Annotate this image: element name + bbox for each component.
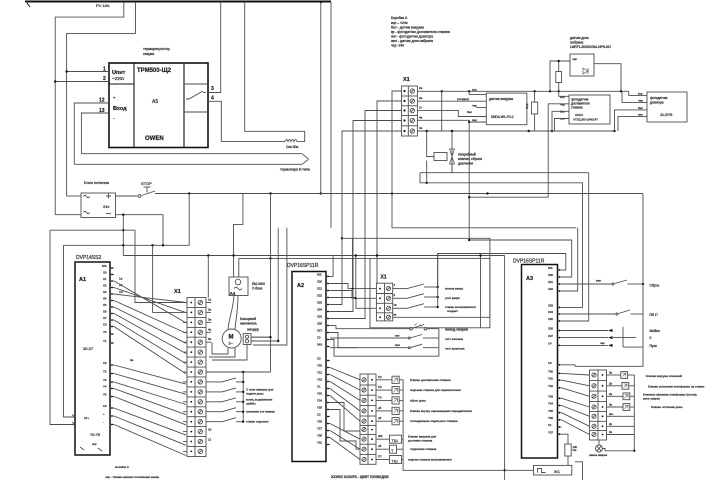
valve solenoid bbox=[376, 420, 392, 422]
switch учет вверх bbox=[393, 297, 407, 299]
svg-text:C2: C2 bbox=[317, 413, 321, 417]
wire vert x480 bbox=[480, 256, 482, 328]
svg-text:4: 4 bbox=[211, 96, 214, 102]
svg-text:exp: exp bbox=[92, 442, 97, 446]
svg-text:термопара К-типа: термопара К-типа bbox=[280, 168, 310, 172]
svg-text:Блок питания: Блок питания bbox=[84, 180, 109, 185]
svg-text:13: 13 bbox=[99, 108, 105, 114]
lamp HL1 bbox=[596, 445, 603, 452]
svg-text:ПЛ П: ПЛ П bbox=[650, 313, 659, 317]
svg-text:3в: 3в bbox=[208, 317, 212, 321]
wire t1 left to 24v drop bbox=[392, 91, 402, 194]
generator Ж1 bbox=[534, 465, 572, 475]
svg-text:чер - Схема нижнего положения: чер - Схема нижнего положения камер bbox=[105, 475, 160, 479]
wire A2 out bbox=[330, 368, 360, 380]
svg-text:A3: A3 bbox=[526, 276, 533, 282]
wire VR direct bbox=[607, 415, 635, 417]
pin 12 wire to thermocouple bbox=[74, 103, 109, 164]
wire A3 to VR bbox=[562, 380, 590, 386]
svg-text:лампа аварии: лампа аварии bbox=[589, 453, 608, 457]
junction minus t0 bbox=[122, 214, 124, 216]
PLC A2 bbox=[292, 272, 326, 462]
wire A2 upper stub5 bbox=[330, 304, 342, 306]
wire A2 upper stub7 bbox=[330, 318, 365, 320]
svg-text:чер: чер bbox=[600, 341, 605, 345]
terminal VL bbox=[362, 447, 366, 451]
svg-text:Y31: Y31 bbox=[548, 376, 553, 380]
valve solenoid bbox=[376, 399, 392, 401]
svg-text:накопитель: накопитель bbox=[240, 322, 257, 326]
wire minus drop2 bbox=[122, 215, 124, 256]
junction rail24 a4 bbox=[269, 192, 271, 194]
svg-text:Y0: Y0 bbox=[103, 330, 107, 334]
bottom ticks bbox=[80, 447, 102, 451]
wire b2 riser bbox=[355, 256, 357, 299]
switch row10 bbox=[206, 391, 222, 393]
svg-text:C3: C3 bbox=[103, 404, 107, 408]
resistor bottom bbox=[562, 434, 569, 444]
svg-text:подачи дозы: подачи дозы bbox=[246, 391, 264, 395]
junction 152 bbox=[151, 244, 153, 246]
svg-text:подъема стакана для переключен: подъема стакана для переключения bbox=[410, 388, 461, 392]
svg-text:X0: X0 bbox=[103, 271, 107, 275]
op block ТРМ500-Щ2 U1 bbox=[109, 63, 208, 148]
wire A2 out bbox=[330, 382, 360, 401]
terminal X1m-8 bbox=[198, 370, 202, 374]
power supply PS1 bbox=[81, 193, 116, 218]
svg-text:чер: чер bbox=[638, 98, 643, 102]
svg-text:син: син bbox=[472, 118, 477, 122]
svg-text:датчик доза: датчик доза bbox=[570, 36, 589, 40]
wire AC in bottom from rail A bbox=[55, 214, 81, 216]
svg-text:X31: X31 bbox=[548, 280, 553, 284]
wire C0 stub bbox=[562, 365, 576, 367]
svg-text:X37: X37 bbox=[548, 334, 553, 338]
wire right valve rail bbox=[633, 375, 635, 451]
svg-text:ТШ: ТШ bbox=[392, 438, 398, 443]
svg-text:X1: X1 bbox=[174, 289, 181, 295]
wire x1m stub r3 bbox=[206, 321, 211, 323]
wire A2 out bbox=[330, 424, 360, 440]
wire rail2 to A1 left pin bbox=[64, 245, 76, 417]
svg-text:2в: 2в bbox=[419, 96, 423, 100]
svg-text:2в+: 2в+ bbox=[609, 412, 614, 416]
wire encoder drop lower bbox=[270, 337, 272, 372]
wire t3 left bbox=[330, 111, 402, 319]
node N tick bbox=[27, 3, 30, 7]
wire minus rail y255 bbox=[123, 255, 504, 257]
wire 24v right drop bbox=[629, 91, 637, 95]
svg-text:набрана: набрана bbox=[570, 41, 583, 45]
svg-text:чер: чер bbox=[572, 57, 577, 61]
heater wire to return bbox=[245, 2, 305, 142]
svg-text:24+: 24+ bbox=[84, 416, 89, 420]
svg-text:давления: давления bbox=[458, 162, 473, 166]
svg-text:жел: жел bbox=[596, 279, 601, 283]
labels right valves bbox=[643, 374, 705, 409]
svg-text:1: 1 bbox=[103, 67, 106, 73]
wire mains drop to rail A bbox=[55, 2, 124, 215]
relay contact K1 bbox=[186, 91, 203, 99]
svg-text:Клапан доставления стакана: Клапан доставления стакана bbox=[410, 378, 451, 382]
junction lamp rail bbox=[633, 450, 635, 452]
wire bottom left L bbox=[575, 462, 583, 480]
svg-text:Y30: Y30 bbox=[548, 370, 553, 374]
svg-text:2в: 2в bbox=[609, 422, 613, 426]
wire sin stub bbox=[469, 121, 486, 123]
junction mains end bbox=[320, 1, 322, 3]
junction fd bel bbox=[551, 130, 553, 132]
svg-text:отделение стакана: отделение стакана bbox=[410, 447, 437, 451]
wire A4 top feed 2 bbox=[238, 258, 240, 277]
label + bbox=[106, 194, 111, 199]
svg-text:A2: A2 bbox=[297, 283, 304, 289]
terminal t4 bbox=[410, 118, 414, 122]
valve solenoid bbox=[376, 410, 392, 412]
svg-text:X35: X35 bbox=[548, 317, 553, 321]
wire A2 out bbox=[330, 375, 360, 391]
terminal X1m-9 bbox=[198, 380, 202, 384]
svg-text:X33: X33 bbox=[548, 304, 553, 308]
svg-text:С-блок: С-блок bbox=[252, 287, 263, 291]
junction a4f bbox=[232, 254, 234, 256]
motor M1 bbox=[222, 329, 241, 348]
junction y182 bbox=[426, 182, 428, 184]
resistor R11 bbox=[558, 61, 560, 72]
svg-text:реле сварки: реле сварки bbox=[643, 396, 660, 400]
svg-text:кр - фотодатчик доставителя ст: кр - фотодатчик доставителя стакана bbox=[391, 30, 450, 34]
svg-text:колобка 3: колобка 3 bbox=[115, 465, 129, 469]
valve solenoid wide bbox=[376, 448, 390, 450]
wire rail to A1 left pin bbox=[50, 230, 75, 424]
svg-text:А5: А5 bbox=[152, 99, 158, 105]
svg-text:Y34: Y34 bbox=[548, 402, 553, 406]
switch ПЛ П bbox=[562, 313, 617, 315]
wire fd kor bbox=[559, 91, 569, 96]
svg-text:кнопка вверх: кнопка вверх bbox=[445, 287, 464, 291]
svg-text:12: 12 bbox=[99, 98, 105, 104]
svg-text:бел: бел bbox=[467, 110, 472, 114]
switch Сброс bbox=[562, 283, 613, 285]
junction enc 258 bbox=[269, 257, 271, 259]
wire encoder right top bbox=[251, 336, 271, 338]
wire nest pin S/S bbox=[438, 254, 566, 288]
svg-text:тест кнопана: тест кнопана bbox=[445, 337, 463, 341]
PLC A3 bbox=[522, 265, 558, 459]
svg-text:10: 10 bbox=[208, 428, 212, 432]
wire clapan drop bbox=[427, 131, 434, 157]
svg-text:X2: X2 bbox=[103, 284, 107, 288]
svg-text:2в: 2в bbox=[609, 403, 613, 407]
wire row8 common bbox=[206, 371, 271, 373]
svg-text:X0-X7: X0-X7 bbox=[83, 347, 93, 351]
svg-text:Y3: Y3 bbox=[103, 378, 107, 382]
thermocouple lead + bbox=[81, 154, 308, 159]
wire b1 riser bbox=[352, 238, 354, 288]
terminal X1m-10 bbox=[198, 390, 202, 394]
valve solenoid right bbox=[607, 406, 624, 408]
terminal X1m-6 bbox=[198, 350, 202, 354]
wire encoder right bottom bbox=[251, 340, 278, 342]
svg-text:X5: X5 bbox=[103, 303, 107, 307]
wire fdz cher bbox=[622, 91, 647, 102]
wire x1m stub r5 bbox=[206, 341, 211, 343]
wire VR direct bbox=[607, 425, 635, 427]
wire t5 signal y131 bbox=[417, 130, 535, 132]
terminal VR bbox=[592, 373, 596, 377]
svg-text:шайбы: шайбы bbox=[246, 401, 256, 405]
svg-text:X3: X3 bbox=[103, 290, 107, 294]
divider relay cell top bbox=[184, 83, 208, 85]
svg-text:тревожка сте наверх: тревожка сте наверх bbox=[246, 410, 275, 414]
wire A2 out bbox=[330, 438, 360, 460]
svg-text:3: 3 bbox=[211, 86, 214, 92]
svg-text:сброс дозы: сброс дозы bbox=[410, 398, 426, 402]
svg-text:доставки стакана: доставки стакана bbox=[408, 439, 433, 443]
terminal b2 bbox=[386, 296, 390, 300]
switch row12 bbox=[206, 411, 222, 413]
wire A3 to VR bbox=[562, 420, 590, 435]
svg-text:-: - bbox=[103, 421, 104, 425]
svg-text:Y20: Y20 bbox=[317, 364, 322, 368]
wire 24v- out bbox=[116, 215, 164, 246]
svg-text:STOP: STOP bbox=[141, 181, 152, 186]
wire fan X7 bbox=[114, 327, 186, 374]
valve solenoid right bbox=[607, 374, 621, 376]
wire t2 to sensor bbox=[417, 100, 486, 102]
wire doza supply bbox=[550, 61, 570, 91]
wire fan Y0 bbox=[114, 365, 186, 384]
svg-text:1б: 1б bbox=[119, 283, 123, 287]
svg-text:0: 0 bbox=[650, 336, 652, 340]
terminal X1m-14 bbox=[198, 429, 202, 433]
svg-text:4в: 4в bbox=[419, 126, 423, 130]
wire A2 C pins bbox=[330, 403, 360, 432]
svg-text:чер: чер bbox=[472, 104, 477, 108]
divider Uпит/Вход bbox=[109, 83, 134, 85]
junction t5 r12 bbox=[528, 130, 530, 132]
svg-text:тест дозатора: тест дозатора bbox=[445, 347, 465, 351]
wire vert 286 bbox=[253, 228, 287, 345]
svg-text:Y30: Y30 bbox=[317, 434, 322, 438]
svg-text:X6: X6 bbox=[103, 310, 107, 314]
svg-text:SNDA-W1-P3-2: SNDA-W1-P3-2 bbox=[491, 115, 514, 119]
svg-text:ХХСХ: ХХСХ bbox=[575, 113, 583, 117]
terminal X1m-5 bbox=[198, 340, 202, 344]
wire b4 loop bbox=[342, 238, 490, 317]
junction pin1 rail B bbox=[65, 70, 67, 72]
svg-text:стакана: стакана bbox=[571, 106, 583, 110]
wire A2 upper stub8 bbox=[330, 325, 336, 327]
wire fan Y3 bbox=[114, 389, 186, 415]
terminal b4 bbox=[386, 315, 390, 319]
svg-text:X7: X7 bbox=[103, 316, 107, 320]
wire a4 to motor 2 bbox=[235, 296, 238, 330]
svg-text:Y33: Y33 bbox=[548, 395, 553, 399]
junction 550 bbox=[549, 90, 551, 92]
svg-text:чер -24в: чер -24в bbox=[391, 44, 404, 48]
svg-text:C4: C4 bbox=[548, 342, 552, 346]
wire kor stub bbox=[469, 91, 486, 94]
wire povod svarki bbox=[336, 326, 410, 329]
svg-text:C2: C2 bbox=[103, 361, 107, 365]
wire y172 left end bbox=[420, 173, 427, 183]
wire drop to X1 strip top bbox=[207, 256, 209, 298]
switch row9 bbox=[206, 381, 222, 383]
wire mains second end drop bbox=[330, 2, 332, 228]
wire mains drop to rail B bbox=[67, 2, 136, 196]
junction bottom rail bbox=[503, 469, 505, 471]
svg-text:24v: 24v bbox=[103, 204, 109, 209]
svg-text:VTE1150-2040147: VTE1150-2040147 bbox=[573, 118, 598, 122]
svg-text:Y4: Y4 bbox=[103, 385, 107, 389]
svg-text:Сва 30м: Сва 30м bbox=[286, 145, 298, 149]
wire A2 test1 bbox=[330, 333, 357, 348]
wire fdz kor stub bbox=[637, 94, 647, 96]
pin 13 wire to thermocouple bbox=[81, 113, 109, 154]
svg-text:C0: C0 bbox=[317, 357, 321, 361]
svg-text:2: 2 bbox=[103, 76, 106, 82]
wire y255 right drop bbox=[504, 256, 506, 480]
wire doza out bbox=[594, 64, 621, 92]
svg-text:Кольцевой: Кольцевой bbox=[240, 317, 256, 321]
wire fan Y4 bbox=[114, 397, 186, 425]
valve solenoid bbox=[376, 389, 392, 391]
wire A4 top feed 1 bbox=[234, 194, 243, 278]
wire A2 upper stub4 to b3 bbox=[330, 298, 376, 309]
wire A2 out bbox=[330, 431, 360, 450]
wire fan X6 bbox=[114, 320, 186, 364]
wire fdz bel bbox=[615, 110, 648, 131]
svg-text:X25: X25 bbox=[317, 315, 322, 319]
svg-text:С2: С2 bbox=[119, 290, 123, 294]
terminal X1m-12 bbox=[198, 410, 202, 414]
driver A4 bbox=[229, 277, 248, 296]
wire 24v sensors y91 bbox=[417, 90, 629, 92]
terminal VL bbox=[362, 378, 366, 382]
svg-text:Вход: Вход bbox=[113, 106, 127, 112]
wire minus distribution left bbox=[50, 230, 183, 302]
wire A3 to VR bbox=[562, 398, 590, 407]
terminal t3 bbox=[410, 108, 414, 112]
terminal X1m-15 bbox=[198, 439, 202, 443]
svg-text:(соедин): (соедин) bbox=[457, 97, 469, 101]
svg-text:X22: X22 bbox=[317, 294, 322, 298]
svg-text:сварки: сварки bbox=[143, 52, 154, 56]
svg-text:Ж1: Ж1 bbox=[554, 469, 561, 474]
wire A3 to VR bbox=[562, 373, 590, 375]
pin 1 bbox=[67, 71, 109, 73]
svg-text:терморегулятор: терморегулятор bbox=[143, 47, 170, 51]
diode symbol bbox=[583, 68, 588, 74]
svg-text:подъем стакана вытаскивателя: подъем стакана вытаскивателя bbox=[408, 458, 452, 462]
wire Ж1 left bbox=[505, 469, 534, 471]
wire VR direct bbox=[607, 434, 635, 436]
wire fan X3 bbox=[114, 301, 186, 334]
svg-text:3а: 3а bbox=[130, 358, 134, 362]
wire bottom y356 bbox=[344, 355, 439, 357]
wire motor bottom loop2 bbox=[209, 348, 235, 358]
terminal t5 bbox=[410, 129, 414, 133]
junction rail24 x1 bbox=[391, 192, 393, 194]
svg-text:A1: A1 bbox=[79, 277, 86, 283]
wire A2 upper stub2 to b1 bbox=[330, 284, 376, 289]
svg-text:повод сварки: повод сварки bbox=[445, 328, 468, 332]
wire switch vert bbox=[438, 329, 440, 357]
mains rail L top bbox=[25, 1, 331, 3]
svg-text:2в: 2в bbox=[609, 392, 613, 396]
heater element bbox=[285, 140, 297, 142]
label minus bbox=[106, 213, 111, 215]
svg-text:C1: C1 bbox=[317, 385, 321, 389]
svg-text:3~: 3~ bbox=[229, 341, 234, 346]
wire fan C3 bbox=[114, 408, 186, 435]
pin 3 wire up to mains bbox=[208, 2, 221, 93]
svg-text:4в: 4в bbox=[419, 116, 423, 120]
svg-text:R12: R12 bbox=[525, 103, 529, 109]
svg-text:Y21: Y21 bbox=[317, 371, 322, 375]
svg-text:X1: X1 bbox=[103, 277, 107, 281]
svg-text:2в: 2в bbox=[609, 381, 613, 385]
terminal VL bbox=[362, 428, 366, 432]
svg-text:X36: X36 bbox=[548, 327, 553, 331]
wire fan Y1 bbox=[114, 374, 186, 395]
wire cher stub bbox=[476, 107, 486, 109]
svg-text:кор: кор bbox=[560, 95, 565, 99]
svg-text:кор: кор bbox=[638, 91, 643, 95]
valve solenoid bbox=[376, 379, 392, 381]
svg-text:датчик вакуума: датчик вакуума bbox=[489, 97, 513, 101]
svg-text:стакан подошел: стакан подошел bbox=[246, 420, 269, 424]
enclosure Коробка Б bbox=[370, 258, 490, 327]
divider column right bbox=[183, 63, 185, 148]
terminal b1 bbox=[386, 287, 390, 291]
wire fan X1 bbox=[114, 288, 186, 313]
junction rail24 right bbox=[486, 192, 488, 194]
terminal X1m-3 bbox=[198, 320, 202, 324]
terminal VR bbox=[592, 394, 596, 398]
junction clapan bbox=[426, 130, 428, 132]
wire nest pin X33 bbox=[562, 183, 583, 308]
junction doza out bbox=[620, 90, 622, 92]
wire switch rail bbox=[437, 254, 439, 308]
svg-text:Мойка: Мойка bbox=[650, 329, 660, 333]
svg-text:JLL/XYB: JLL/XYB bbox=[660, 113, 672, 117]
svg-text:Сброс: Сброс bbox=[650, 284, 660, 288]
terminal X1m-11 bbox=[198, 400, 202, 404]
svg-text:Аварийный: Аварийный bbox=[458, 153, 476, 157]
svg-text:24G: 24G bbox=[317, 343, 322, 347]
A1 left pins bbox=[72, 415, 75, 425]
svg-text:П1: П1 bbox=[378, 375, 382, 379]
svg-text:кор: кор bbox=[472, 87, 477, 91]
svg-text:X23: X23 bbox=[317, 301, 322, 305]
svg-text:энкодер: энкодер bbox=[247, 328, 259, 332]
wire box top ext bbox=[287, 257, 370, 259]
svg-text:Т4: Т4 bbox=[378, 395, 382, 399]
wire A2 upper stub1 bbox=[330, 256, 333, 277]
junction 452 bbox=[451, 130, 453, 132]
svg-text:FU 10A: FU 10A bbox=[96, 3, 110, 8]
svg-text:2в: 2в bbox=[419, 86, 423, 90]
svg-text:4в: 4в bbox=[208, 327, 212, 331]
valve solenoid wide bbox=[376, 459, 390, 461]
svg-text:X1: X1 bbox=[403, 77, 410, 83]
wire fan Y2 bbox=[114, 382, 186, 405]
wire fan low1 bbox=[114, 416, 186, 445]
terminal strip XT2 left valves bbox=[360, 374, 376, 464]
valve solenoid wide bbox=[376, 438, 390, 440]
